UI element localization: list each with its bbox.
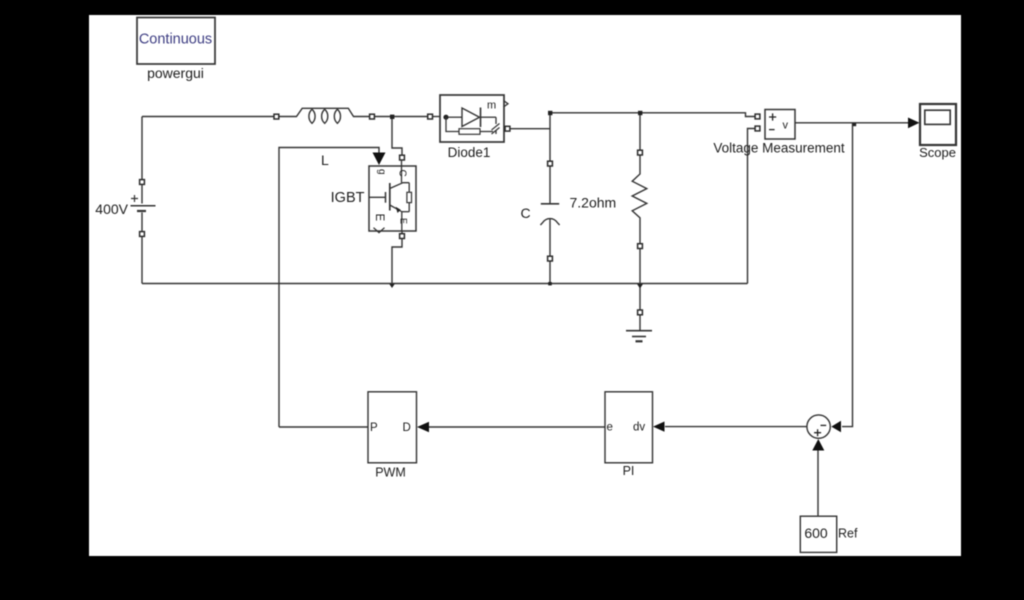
svg-text:dv: dv: [633, 422, 645, 434]
svg-text:Voltage Measurement: Voltage Measurement: [713, 141, 845, 156]
svg-text:Continuous: Continuous: [139, 32, 212, 48]
svg-text:L: L: [321, 152, 329, 168]
svg-text:C: C: [520, 205, 530, 221]
svg-text:D: D: [403, 422, 411, 434]
svg-text:Diode1: Diode1: [448, 145, 491, 160]
svg-text:400V: 400V: [95, 201, 128, 217]
svg-text:P: P: [370, 422, 378, 434]
svg-text:600: 600: [804, 525, 828, 541]
svg-text:e: e: [607, 422, 613, 434]
svg-text:IGBT: IGBT: [331, 190, 365, 206]
svg-text:v: v: [783, 119, 789, 131]
svg-text:Ref: Ref: [838, 527, 858, 541]
svg-text:powergui: powergui: [147, 65, 204, 81]
svg-text:g: g: [376, 169, 387, 175]
svg-text:PI: PI: [623, 464, 635, 478]
svg-text:Scope: Scope: [919, 145, 956, 160]
svg-text:C: C: [397, 170, 408, 177]
svg-text:m: m: [487, 100, 496, 112]
svg-text:E: E: [373, 214, 385, 222]
svg-text:E: E: [399, 218, 409, 224]
svg-text:7.2ohm: 7.2ohm: [570, 195, 617, 211]
svg-text:PWM: PWM: [375, 466, 406, 480]
